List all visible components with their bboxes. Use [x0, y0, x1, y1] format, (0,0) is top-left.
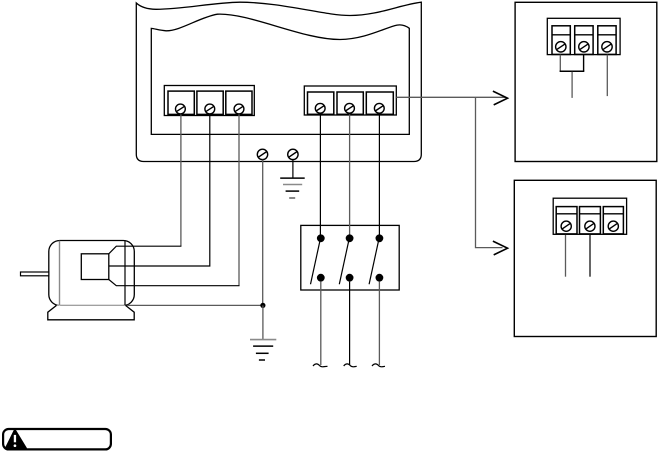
terminal block TB1 outer — [164, 86, 254, 116]
switch SW1 box — [301, 225, 399, 290]
TB3 clamp line 3 — [598, 34, 616, 36]
arrowhead to detail box 2 — [493, 241, 508, 255]
TB2 screw 3 — [374, 103, 384, 113]
wire from TB4-1 — [565, 235, 567, 277]
TB1 screw 2 — [205, 104, 215, 114]
wire motor frame to junction — [127, 304, 263, 306]
SW1 pole 3 top contact — [376, 234, 384, 242]
motor end bell line right — [124, 241, 126, 306]
mounting screw S2 (ground stud right) — [288, 149, 298, 159]
TB2 cell 2 — [337, 92, 363, 114]
TB2 cell 3 — [366, 92, 393, 114]
TB4 cell 3 — [603, 207, 623, 234]
TB1 cell 3 — [226, 91, 252, 114]
wire junction to ground G2 — [262, 305, 264, 339]
TB3 screw 3 — [602, 42, 612, 52]
TB3 cell 2 — [575, 26, 593, 55]
TB3 clamp line 2 — [575, 34, 593, 36]
wire from TB3-3 — [606, 55, 608, 97]
motor junction box — [81, 254, 109, 280]
wire break L3 — [372, 364, 385, 367]
SW1 pole 2 bottom contact — [346, 274, 354, 282]
TB3 screw 2 — [579, 42, 589, 52]
TB4 screw 1 — [561, 221, 571, 231]
wire TB2-1 to SW1 pole 1 — [319, 114, 321, 238]
TB2 screw 1 — [315, 103, 325, 113]
detail box 1 — [515, 2, 657, 161]
TB3 outer — [547, 18, 620, 54]
wire break L1 — [313, 364, 328, 367]
SW1 pole 3 bottom contact — [376, 274, 384, 282]
TB3 screw 1 — [556, 42, 566, 52]
terminal block TB2 outer — [304, 86, 396, 115]
wire TB2-2 to SW1 pole 2 — [349, 114, 351, 238]
motor end bell line left — [59, 241, 61, 306]
wire SW1 pole 2 to supply L2 — [349, 282, 351, 365]
TB2 cell 1 — [308, 92, 334, 114]
wire from TB4-2 — [589, 235, 591, 277]
wire from jumper — [571, 72, 573, 98]
enclosure outer (control box cover, wavy break at top) — [136, 2, 421, 161]
TB1 screw 3 — [234, 104, 244, 114]
warning triangle — [6, 430, 26, 448]
TB4 outer — [553, 198, 626, 234]
wire SW1 pole 1 to supply L1 — [320, 282, 322, 365]
TB1 screw 1 — [176, 104, 186, 114]
TB3 cell 3 — [598, 26, 616, 55]
TB1 cell 2 — [197, 91, 223, 114]
TB1 cell 1 — [168, 91, 194, 114]
TB4 screw 2 — [585, 221, 595, 231]
ground G2 — [250, 340, 276, 360]
SW1 pole 1 top contact — [317, 234, 325, 242]
enclosure inner (panel opening, wavy break at top) — [151, 14, 409, 134]
motor base — [48, 305, 134, 319]
TB4 clamp line 3 — [603, 213, 623, 215]
callout branch down — [476, 97, 503, 247]
jumper TB3 1-2 — [559, 55, 561, 72]
SW1 pole 3 blade — [369, 241, 378, 284]
wire TB1-3 to motor (line W) — [238, 114, 240, 285]
arrowhead to detail box 1 — [493, 91, 508, 105]
warning exclamation — [14, 435, 17, 447]
SW1 pole 2 top contact — [346, 234, 354, 242]
wire TB1-2 to motor (line V) — [109, 114, 210, 266]
TB4 cell 2 — [580, 207, 601, 234]
TB3 cell 1 — [552, 26, 570, 55]
wire TB2-3 to SW1 pole 3 — [378, 114, 380, 238]
wire SW1 pole 3 to supply L3 — [378, 282, 380, 365]
junction dot — [260, 303, 265, 308]
ground G1 — [280, 178, 305, 198]
SW1 pole 1 blade — [311, 241, 320, 284]
mounting screw S1 (ground stud left) — [257, 149, 267, 159]
TB2 screw 2 — [345, 103, 355, 113]
TB4 clamp line 1 — [556, 213, 577, 215]
motor shaft — [21, 272, 49, 276]
TB4 screw 3 — [608, 221, 618, 231]
warning label frame — [3, 429, 111, 449]
wire S1 to junction (motor ground) — [262, 160, 264, 306]
detail box 2 — [514, 180, 656, 336]
callout line from TB2 — [396, 96, 505, 98]
motor body — [49, 241, 135, 306]
wire break L2 — [344, 364, 357, 367]
wire S2 to ground G1 — [292, 160, 294, 178]
TB4 clamp line 2 — [580, 213, 601, 215]
SW1 pole 1 bottom contact — [317, 274, 325, 282]
TB4 cell 1 — [556, 207, 577, 234]
TB3 clamp line 1 — [552, 34, 570, 36]
wire TB1-1 to motor (line U) — [180, 114, 182, 246]
SW1 pole 2 blade — [339, 241, 348, 284]
